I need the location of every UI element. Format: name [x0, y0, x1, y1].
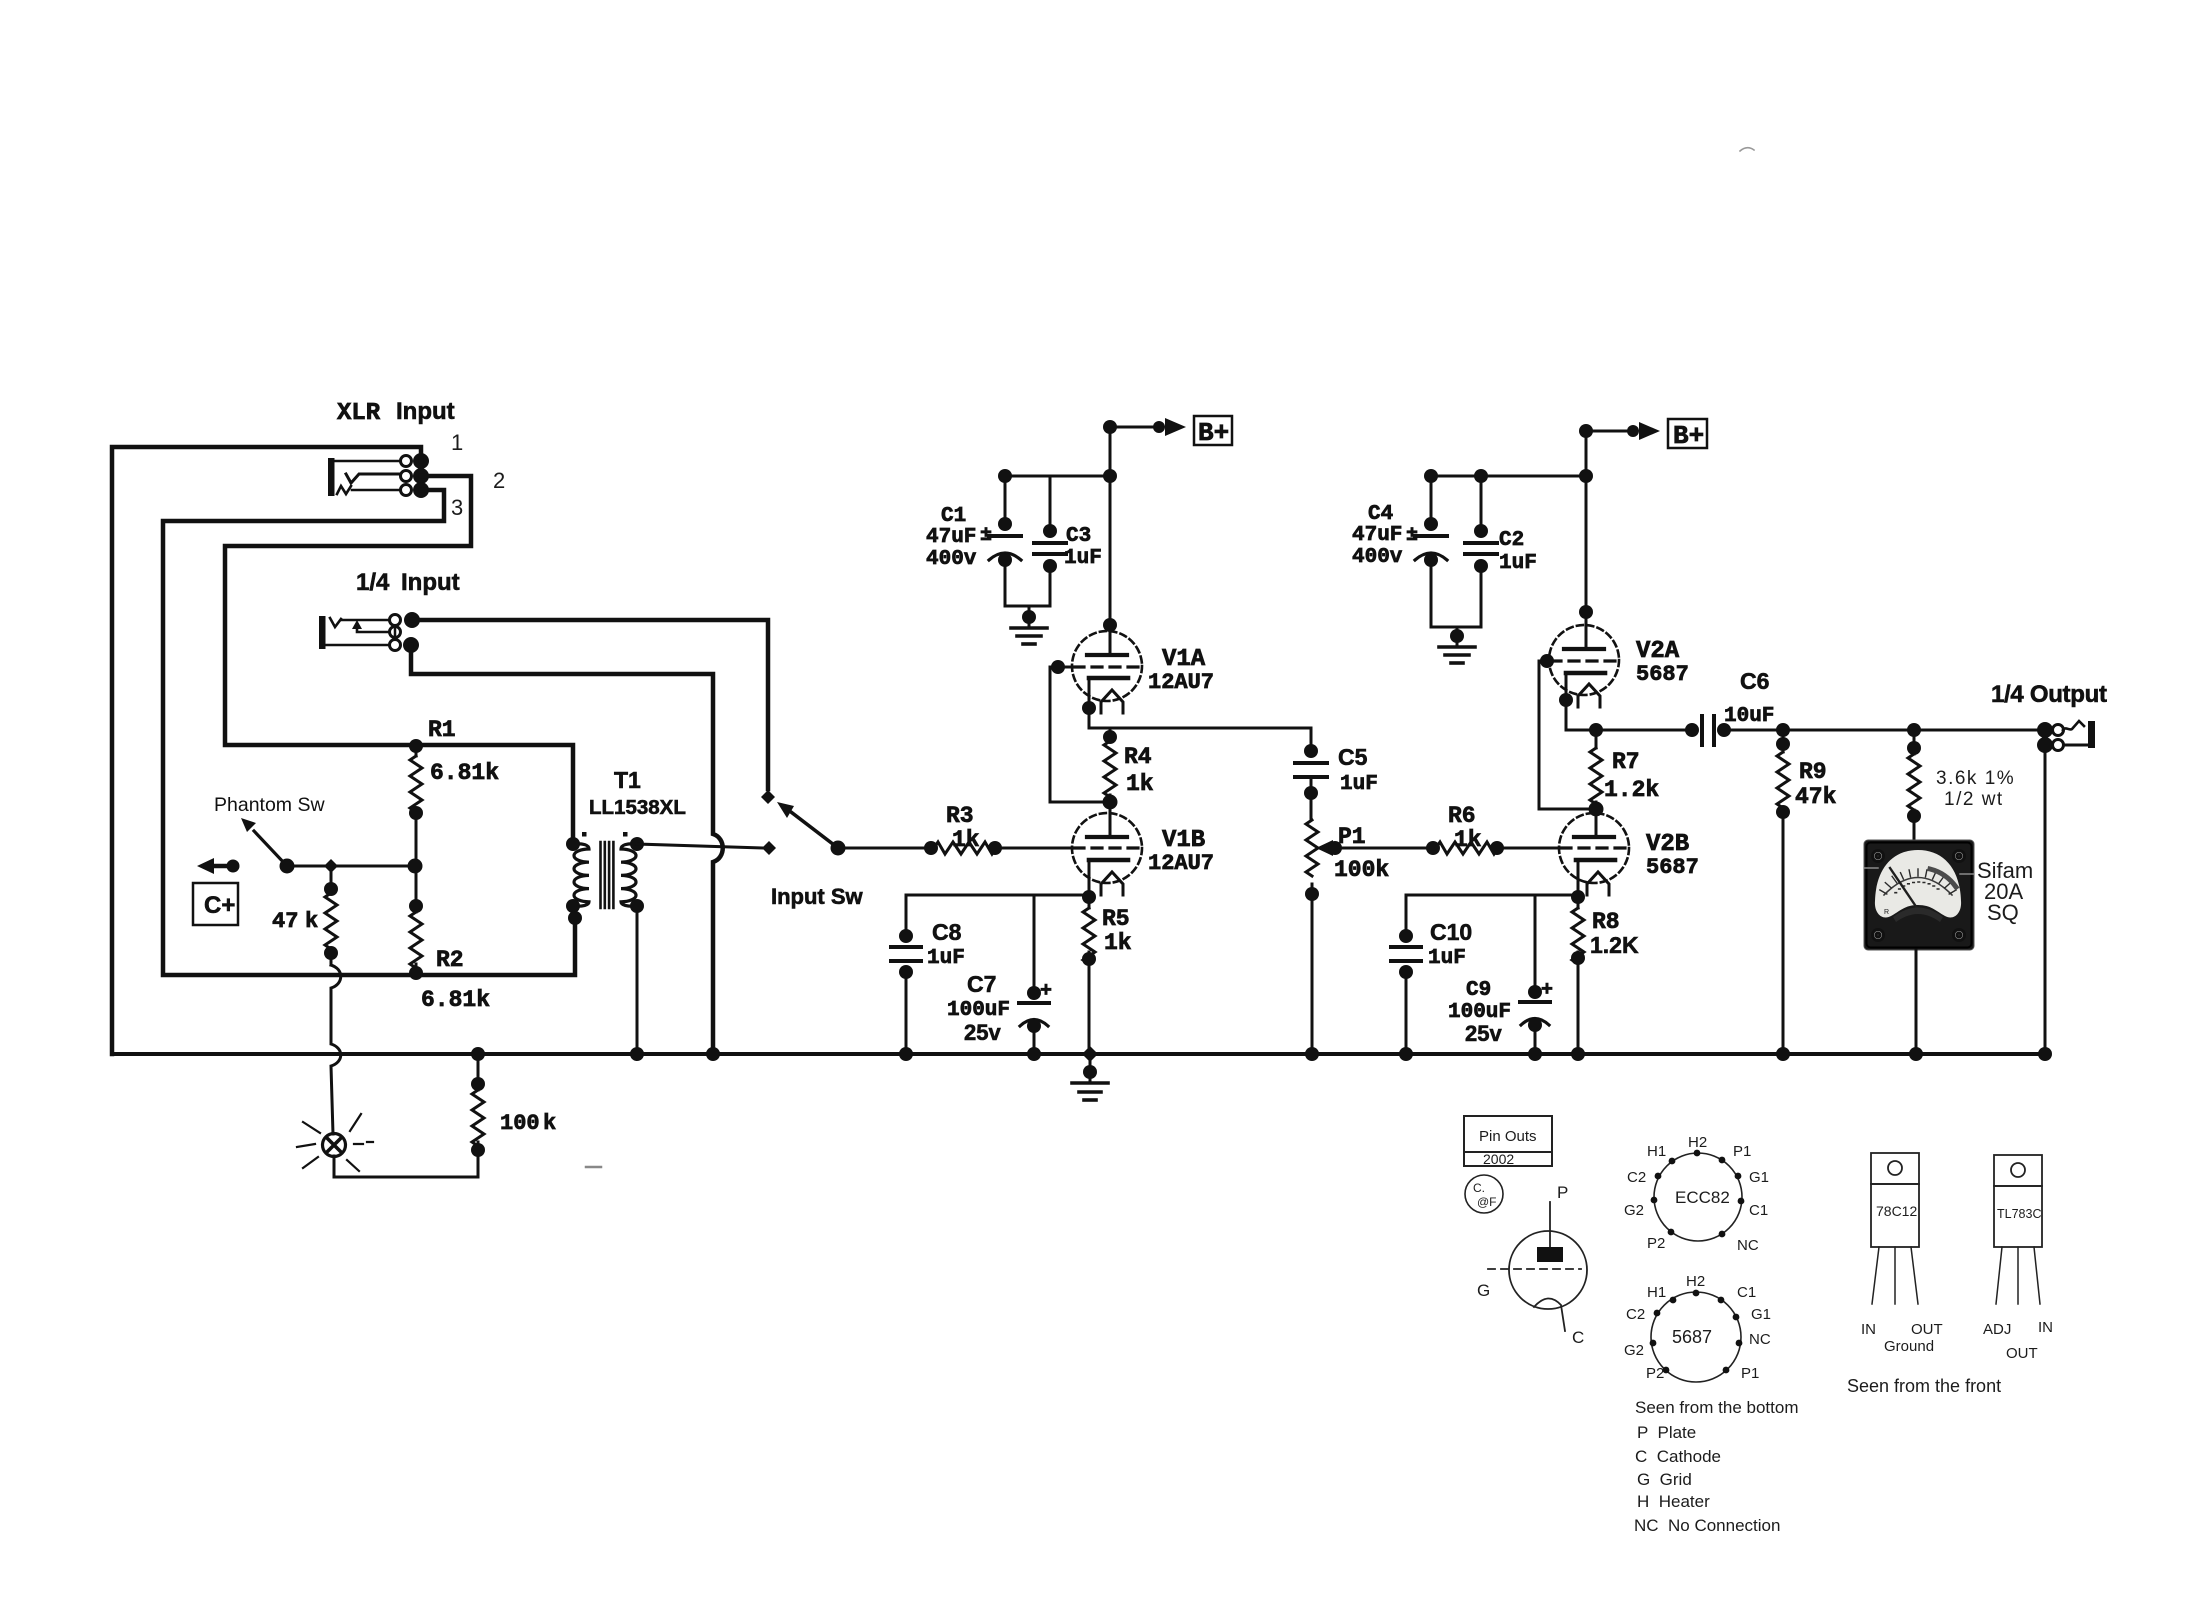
svg-text:R7: R7: [1612, 749, 1640, 775]
pin key text list: [1634, 1398, 1798, 1535]
label LL1538XL: [589, 796, 686, 819]
svg-text:1uF: 1uF: [927, 947, 965, 970]
XLR pin 2 contact: [346, 468, 429, 484]
wire cap top rail stage 2: [1424, 469, 1586, 483]
ground C1C3: [1011, 606, 1047, 644]
svg-text:10uF: 10uF: [1724, 705, 1774, 728]
capacitor C1: [980, 476, 1021, 606]
svg-text:T1: T1: [614, 767, 641, 793]
svg-text:2002: 2002: [1483, 1151, 1514, 1167]
wire pin3 loop to R2 bottom and T1 primary bottom: [163, 490, 575, 975]
wire V1A cathode to C5 rail: [1082, 678, 1311, 751]
T1 polarity dots: [582, 832, 628, 837]
P1 wiper arrow: [1316, 840, 1342, 856]
svg-text:H1: H1: [1647, 1284, 1666, 1301]
label R8 1.2K: [1590, 909, 1639, 958]
svg-text:Pin Outs: Pin Outs: [1479, 1128, 1537, 1145]
T1 terminal nodes: [566, 837, 644, 925]
output jack tip contact: [2037, 721, 2084, 738]
1/4 ring switch contact arrow: [352, 620, 401, 638]
XLR connector body: [328, 458, 335, 496]
svg-text:400v: 400v: [1352, 546, 1403, 569]
value 6.81k R2: [421, 987, 490, 1013]
svg-text:47uF: 47uF: [1352, 524, 1402, 547]
svg-text:25v: 25v: [964, 1020, 1001, 1045]
caption Seen from the front: [1847, 1376, 2001, 1396]
potentiometer P1: [1305, 820, 1319, 1054]
svg-text:12AU7: 12AU7: [1148, 670, 1214, 695]
label T1: [614, 767, 641, 793]
svg-text:R5: R5: [1102, 906, 1130, 932]
wire input switch to R3: [838, 841, 938, 855]
svg-text:+: +: [1040, 980, 1052, 1003]
svg-text:NC No Connection: NC No Connection: [1634, 1516, 1780, 1535]
node B+ box stage 1: [1194, 416, 1232, 448]
svg-text:C7: C7: [967, 971, 996, 997]
label R3 1k: [946, 803, 980, 853]
label XLR Input: [337, 398, 455, 427]
svg-text:P1: P1: [1733, 1143, 1751, 1160]
svg-text:78C12: 78C12: [1876, 1203, 1917, 1219]
capacitor C5: [1295, 744, 1327, 820]
resistor R2: [409, 866, 423, 980]
svg-text:C2: C2: [1499, 529, 1524, 552]
svg-text:Ground: Ground: [1884, 1338, 1934, 1355]
node B+ box stage 2: [1668, 419, 1707, 451]
label C3 values: [1064, 525, 1102, 570]
svg-text:1k: 1k: [952, 827, 980, 853]
label C5 1uF: [1338, 744, 1378, 796]
svg-text:C10: C10: [1430, 919, 1472, 945]
svg-text:+: +: [1541, 979, 1553, 1002]
svg-text:R9: R9: [1799, 759, 1827, 785]
resistor R1: [409, 739, 423, 866]
svg-text:1uF: 1uF: [1428, 947, 1466, 970]
svg-text:IN: IN: [1861, 1321, 1876, 1338]
svg-text:P1: P1: [1338, 824, 1366, 850]
label V1B: [1148, 827, 1214, 876]
svg-text:P2: P2: [1646, 1365, 1664, 1382]
label C4 values: [1352, 503, 1403, 569]
capacitor C8: [891, 895, 921, 1054]
XLR pin 3 contact: [337, 482, 429, 498]
svg-text:1.2K: 1.2K: [1590, 932, 1639, 958]
svg-text:400v: 400v: [926, 548, 977, 571]
wire 1/4 tip to input switch upper contact: [412, 620, 768, 789]
svg-text:LL1538XL: LL1538XL: [589, 796, 686, 819]
svg-text:47: 47: [272, 909, 298, 934]
wire V1A grid to R4 bottom: [1050, 660, 1110, 802]
svg-text:1k: 1k: [1104, 930, 1132, 956]
label V2B: [1646, 831, 1699, 880]
wire output rail: [1724, 729, 2045, 732]
capacitor C6: [1685, 716, 1731, 745]
wire phantom rail: [287, 865, 415, 868]
svg-text:V1B: V1B: [1162, 827, 1205, 854]
svg-text:P: P: [1557, 1183, 1568, 1202]
svg-text:C2: C2: [1626, 1306, 1645, 1323]
wire V2A grid to R7 bottom: [1539, 654, 1596, 809]
svg-text:1k: 1k: [1126, 771, 1154, 797]
wire T1 secondary bottom to bus: [636, 906, 639, 1054]
label C10 1uF: [1428, 919, 1472, 970]
label R9 47k: [1795, 759, 1837, 810]
label R5 1k: [1102, 906, 1132, 956]
phantom switch blade: [241, 818, 295, 874]
svg-text:47uF: 47uF: [926, 526, 976, 549]
svg-text:H2: H2: [1686, 1273, 1705, 1290]
svg-text:ECC82: ECC82: [1675, 1188, 1730, 1207]
wire B+ rail stage 2: [1579, 424, 1593, 649]
resistor R9: [1776, 723, 1790, 1054]
label R4 1k: [1124, 744, 1154, 797]
label R1: [428, 717, 456, 743]
resistor R4: [1103, 728, 1118, 810]
regulator TL783C package: [1983, 1155, 2053, 1362]
value 47k: [272, 909, 318, 934]
svg-text:k: k: [543, 1111, 556, 1136]
resistor 3.6k meter series: [1907, 723, 1921, 840]
label C1 values: [926, 505, 977, 571]
capacitor C4: [1406, 476, 1447, 627]
C+ feed arrow: [197, 858, 240, 874]
svg-text:3.6k 1%: 3.6k 1%: [1936, 768, 2015, 789]
lamp rays: [297, 1114, 373, 1171]
svg-text:OUT: OUT: [2006, 1345, 2038, 1362]
lamp X: [323, 1134, 346, 1157]
svg-text:1.2k: 1.2k: [1604, 777, 1659, 803]
svg-text:SQ: SQ: [1987, 900, 2019, 925]
svg-text:P2: P2: [1647, 1235, 1665, 1252]
svg-text:C1: C1: [1737, 1284, 1756, 1301]
label 1/4 Output: [1991, 681, 2107, 708]
label C9 100uF 25v: [1448, 979, 1511, 1046]
svg-text:3: 3: [451, 495, 463, 520]
ECC82 pinout circle: [1624, 1134, 1769, 1254]
label R7 1.2k: [1604, 749, 1659, 803]
svg-text:R3: R3: [946, 803, 974, 829]
capacitor C3: [1034, 476, 1066, 606]
5687 pinout circle: [1624, 1273, 1771, 1382]
svg-text:±: ±: [1406, 524, 1418, 547]
svg-text:C1: C1: [1749, 1202, 1768, 1219]
svg-text:R: R: [1884, 909, 1889, 916]
wire 1/4 sleeve down to ground bus with hop over T1 secondary line: [411, 645, 723, 1054]
svg-text:12AU7: 12AU7: [1148, 851, 1214, 876]
resistor R5: [1082, 908, 1096, 1054]
svg-text:Input: Input: [401, 569, 460, 596]
svg-text:B+: B+: [1198, 418, 1229, 448]
input switch upper contact (diamond): [761, 790, 775, 804]
svg-text:H Heater: H Heater: [1637, 1492, 1710, 1511]
svg-text:1uF: 1uF: [1499, 552, 1537, 575]
svg-text:R4: R4: [1124, 744, 1152, 770]
wire C10 rail: [1406, 894, 1578, 897]
label C2 values: [1499, 529, 1537, 575]
regulator 78C12 package: [1861, 1153, 1943, 1355]
svg-text:ADJ: ADJ: [1983, 1321, 2011, 1338]
wire pin2 loop to R1 and T1 primary top: [225, 476, 573, 838]
svg-text:1/4: 1/4: [356, 569, 390, 596]
svg-text:5687: 5687: [1672, 1327, 1712, 1347]
svg-text:NC: NC: [1737, 1237, 1759, 1254]
svg-text:P1: P1: [1741, 1365, 1759, 1382]
resistor R6: [1436, 841, 1504, 855]
svg-text:TL783C: TL783C: [1997, 1207, 2041, 1221]
svg-text:5687: 5687: [1646, 855, 1699, 880]
svg-text:1k: 1k: [1454, 827, 1482, 853]
svg-text:k: k: [305, 909, 318, 934]
svg-text:Seen from the bottom: Seen from the bottom: [1635, 1398, 1798, 1417]
transformer T1 core: [601, 842, 614, 908]
capacitor C9: [1520, 895, 1553, 1054]
svg-text:Input Sw: Input Sw: [771, 884, 864, 909]
label V1A: [1148, 646, 1214, 695]
svg-text:@F: @F: [1477, 1195, 1497, 1209]
ground C4C2: [1439, 627, 1475, 663]
svg-text:25v: 25v: [1465, 1021, 1502, 1046]
wire T1 secondary top to input switch lower contact: [637, 844, 762, 848]
wire V1B cathode down: [1082, 860, 1096, 908]
svg-text:5687: 5687: [1636, 662, 1689, 687]
node 47k top (diamond): [324, 859, 338, 873]
svg-text:C1: C1: [941, 505, 966, 528]
svg-text:P Plate: P Plate: [1637, 1423, 1696, 1442]
svg-text:47k: 47k: [1795, 784, 1837, 810]
label C7 100uF 25v: [947, 971, 1010, 1045]
capacitor C7: [1019, 895, 1052, 1054]
label C8 1uF: [927, 919, 965, 970]
svg-text:C2: C2: [1627, 1169, 1646, 1186]
B+ arrow stage 2: [1586, 422, 1660, 440]
svg-text:G Grid: G Grid: [1637, 1470, 1692, 1489]
capacitor C10: [1391, 895, 1421, 1054]
svg-text:NC: NC: [1749, 1331, 1771, 1348]
resistor R3: [934, 841, 1002, 855]
label 1/4 Input: [356, 569, 460, 596]
wire 47k down to lamp with hops over pin3 line and bus: [331, 965, 341, 1134]
label Sifam 20A SQ: [1977, 858, 2033, 925]
transformer T1 primary coil: [573, 844, 589, 907]
svg-text:R1: R1: [428, 717, 456, 743]
wire R6 to V2B grid: [1497, 847, 1559, 850]
resistor 47k: [324, 873, 338, 965]
wire meter to bus: [1915, 950, 1918, 1054]
1/4 input jack body: [319, 616, 326, 649]
svg-text:1/2 wt: 1/2 wt: [1944, 789, 2004, 810]
input switch lower contact (diamond): [762, 841, 776, 855]
wire P1 wiper rail to R6: [1335, 841, 1440, 855]
svg-text:Input: Input: [396, 398, 455, 425]
svg-text:1uF: 1uF: [1340, 773, 1378, 796]
svg-text:6.81k: 6.81k: [430, 760, 499, 786]
stray mark: [586, 1166, 601, 1169]
resistor 100k: [471, 1054, 485, 1157]
svg-text:C4: C4: [1368, 503, 1393, 526]
label Input Sw: [771, 884, 864, 909]
svg-text:Phantom Sw: Phantom Sw: [214, 794, 325, 816]
svg-text:2: 2: [493, 468, 505, 493]
svg-text:C+: C+: [204, 892, 235, 919]
C+ box: [193, 883, 238, 925]
svg-text:R6: R6: [1448, 803, 1476, 829]
value 6.81k R1: [430, 760, 499, 786]
svg-text:±: ±: [980, 524, 992, 547]
value 100k: [500, 1111, 556, 1136]
1/4 tip contact: [330, 612, 420, 628]
wire C1 C3 bottom rail: [1005, 605, 1050, 608]
svg-text:V1A: V1A: [1162, 646, 1206, 673]
label V2A: [1636, 638, 1689, 687]
resistor R8: [1571, 908, 1585, 1054]
transformer T1 secondary coil: [621, 844, 637, 907]
svg-text:100: 100: [500, 1111, 540, 1136]
wire cap top rail stage 1: [998, 469, 1110, 483]
svg-text:C8: C8: [932, 919, 962, 945]
svg-text:G2: G2: [1624, 1342, 1644, 1359]
output jack sleeve contact: [2037, 737, 2088, 753]
wire output sleeve to bus: [2044, 745, 2047, 1054]
svg-text:C Cathode: C Cathode: [1635, 1447, 1721, 1466]
tube V1B: [1072, 802, 1142, 895]
label R6 1k: [1448, 803, 1482, 853]
svg-text:C3: C3: [1066, 525, 1091, 548]
svg-text:6.81k: 6.81k: [421, 987, 490, 1013]
svg-text:100k: 100k: [1334, 857, 1389, 883]
svg-text:C5: C5: [1338, 744, 1368, 770]
svg-text:G: G: [1477, 1281, 1490, 1300]
pin number 3: [451, 495, 463, 520]
svg-text:Seen from the front: Seen from the front: [1847, 1376, 2001, 1396]
Pin Outs title box: [1464, 1116, 1552, 1167]
label R2: [436, 947, 464, 973]
svg-text:IN: IN: [2038, 1319, 2053, 1336]
wire C4 C2 bottom rail: [1431, 626, 1481, 629]
triode symbol pin key: [1477, 1183, 1587, 1347]
svg-text:1uF: 1uF: [1064, 547, 1102, 570]
label Phantom Sw: [214, 794, 325, 816]
wire V2A cathode to C6: [1559, 673, 1689, 730]
initials circle C @F: [1465, 1175, 1503, 1213]
node bus R5 junction diamond: [1082, 1046, 1098, 1062]
svg-text:H1: H1: [1647, 1143, 1666, 1160]
svg-text:C9: C9: [1466, 979, 1491, 1002]
svg-text:100uF: 100uF: [947, 999, 1010, 1022]
wire R3 to V1B grid: [995, 847, 1072, 850]
tube V2A: [1549, 625, 1619, 707]
node bus junctions: [471, 1047, 2052, 1061]
value 3.6k 1% 1/2 wt: [1936, 768, 2015, 810]
svg-text:C: C: [1572, 1328, 1584, 1347]
wire ground bus: [112, 1052, 2045, 1056]
label C6 10uF: [1724, 668, 1774, 728]
svg-text:G2: G2: [1624, 1202, 1644, 1219]
resistor R7: [1589, 723, 1604, 817]
svg-text:H2: H2: [1688, 1134, 1707, 1151]
svg-text:1: 1: [451, 430, 463, 455]
node R1/R2 junction: [408, 859, 423, 874]
XLR pin 1 contact: [335, 453, 429, 469]
input switch blade: [777, 802, 846, 856]
svg-text:C.: C.: [1473, 1181, 1485, 1195]
svg-text:XLR: XLR: [337, 400, 381, 427]
capacitor C2: [1465, 476, 1497, 627]
label P1 100k: [1334, 824, 1389, 883]
svg-text:R2: R2: [436, 947, 464, 973]
wire C8 rail: [906, 894, 1089, 897]
stray mark top: [1740, 148, 1754, 151]
svg-text:C6: C6: [1740, 668, 1769, 694]
meter Sifam photo: [1864, 840, 1974, 950]
1/4 sleeve contact: [326, 626, 419, 653]
svg-text:B+: B+: [1673, 421, 1704, 451]
svg-text:1/4 Output: 1/4 Output: [1991, 681, 2107, 708]
svg-text:OUT: OUT: [1911, 1321, 1943, 1338]
ground main: [1072, 1054, 1108, 1100]
wire pin1 to left outer loop: [112, 447, 421, 1054]
wire B+ rail stage 1: [1103, 420, 1117, 655]
svg-text:G1: G1: [1749, 1169, 1769, 1186]
tube V2B: [1559, 809, 1629, 895]
svg-text:V2B: V2B: [1646, 831, 1689, 858]
pin number 1: [451, 430, 463, 455]
svg-text:G1: G1: [1751, 1306, 1771, 1323]
B+ arrow stage 1: [1110, 418, 1186, 436]
pin number 2: [493, 468, 505, 493]
svg-text:V2A: V2A: [1636, 638, 1680, 665]
wire lamp bottom loop to 100k: [334, 1156, 478, 1177]
tube V1A: [1072, 631, 1142, 713]
wire V2B cathode down: [1571, 860, 1585, 908]
output jack body: [2088, 721, 2095, 748]
